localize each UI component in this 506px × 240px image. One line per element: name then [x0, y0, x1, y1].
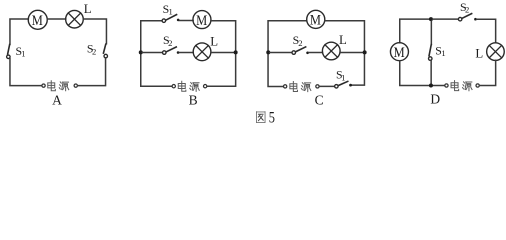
svg-text:L: L [84, 2, 92, 16]
svg-text:M: M [394, 44, 405, 60]
node (D top junction) [429, 17, 433, 21]
svg-text:2: 2 [298, 38, 302, 48]
svg-text:1: 1 [21, 49, 25, 59]
wire (C bottom: power source to switch S1) [319, 85, 334, 87]
wire (A bottom-left: switch down to power source) [10, 59, 42, 86]
switch S1 (B top branch) [162, 15, 179, 23]
wire (B top: switch to motor) [179, 20, 193, 22]
switch S2 (D top) [458, 14, 476, 21]
power source 电源 (A) [42, 81, 78, 91]
wire (C left side: top corner, down, bottom to power source) [268, 21, 307, 87]
switch S1 (A left side) [7, 45, 11, 59]
svg-text:A: A [52, 92, 62, 107]
svg-text:M: M [196, 12, 207, 28]
motor M (D) [390, 43, 408, 61]
node (B left junction) [139, 50, 143, 54]
wire (A top: motor to lamp) [47, 18, 66, 20]
svg-text:C: C [315, 93, 324, 108]
svg-text:D: D [430, 92, 440, 107]
wire (B middle branch: lamp to right junction) [211, 52, 234, 54]
wire (C right side: motor to corner, down to bottom corner, to switch dot) [325, 21, 365, 85]
svg-text:5: 5 [269, 109, 275, 126]
label S1 (D) [435, 44, 445, 59]
svg-text:1: 1 [168, 7, 172, 17]
lamp L (B) [193, 43, 211, 61]
node (B right junction) [234, 50, 238, 54]
svg-text:M: M [310, 12, 321, 28]
svg-text:1: 1 [341, 72, 345, 82]
motor M (A) [28, 10, 47, 29]
wire (C middle branch: lamp to right junction) [340, 52, 363, 54]
wire (D top: junction to switch S2) [433, 18, 459, 20]
lamp L (D) [487, 43, 505, 61]
wire (B right side: motor to corner, down, bottom to power source) [207, 21, 236, 86]
svg-text:L: L [475, 47, 483, 61]
switch S2 (A right side) [103, 44, 107, 58]
wire (C middle branch: switch to lamp) [309, 52, 323, 54]
svg-text:L: L [339, 33, 347, 47]
figure caption 图 5 [256, 109, 275, 127]
wire (D middle branch: junction down to switch S1) [430, 21, 432, 44]
svg-text:2: 2 [168, 38, 172, 48]
wire (D middle branch: switch down to bottom junction) [430, 60, 432, 83]
power source 电源 (D) [445, 81, 479, 91]
wire (A bottom-right: power source to switch S2) [78, 58, 106, 86]
switch S2 (C middle branch) [292, 47, 309, 54]
wire (B middle branch: junction to switch S2) [142, 52, 162, 54]
motor M (C) [307, 10, 325, 28]
label S1 (A) [15, 44, 25, 59]
power source 电源 (C) [284, 82, 320, 92]
node (D bottom junction) [429, 84, 433, 88]
label S2 (D) [460, 0, 469, 15]
node (C left junction) [266, 50, 270, 54]
label S2 (C) [293, 33, 303, 48]
svg-text:2: 2 [465, 5, 469, 15]
wire (C middle branch: junction to switch S2) [270, 52, 292, 54]
switch S1 (D middle branch) [429, 45, 433, 61]
lamp L (A) [66, 10, 84, 28]
wire (A top-left: corner to motor) [10, 19, 28, 44]
wire (D bottom-left: motor down, corner, to junction and power source) [400, 61, 445, 86]
lamp L (C) [322, 42, 340, 60]
label S2 (B) [163, 33, 172, 48]
svg-text:2: 2 [92, 46, 96, 56]
switch S2 (B middle branch) [163, 47, 180, 54]
svg-text:B: B [189, 92, 198, 107]
svg-text:M: M [32, 12, 43, 28]
wire (D top-left: motor up to corner, to junction) [400, 19, 429, 43]
svg-text:1: 1 [441, 48, 445, 58]
power source 电源 (B) [172, 81, 207, 91]
label S1 (C) [336, 68, 345, 83]
label S2 (A) [87, 42, 96, 57]
node (C right junction) [363, 50, 367, 54]
wire (D top-right: switch to corner, down to lamp) [477, 19, 496, 43]
svg-text:L: L [210, 35, 218, 49]
label S1 (B) [163, 2, 173, 17]
wire (D bottom-right: power source to corner, up to lamp) [480, 60, 496, 85]
wire (B left side: top corner, down, bottom to power source) [141, 21, 172, 86]
switch S1 (C bottom) [335, 81, 352, 88]
wire (B middle branch: switch to lamp) [179, 52, 193, 54]
wire (A top-right: lamp to corner, down to switch) [83, 19, 106, 44]
motor M (B) [193, 11, 211, 29]
